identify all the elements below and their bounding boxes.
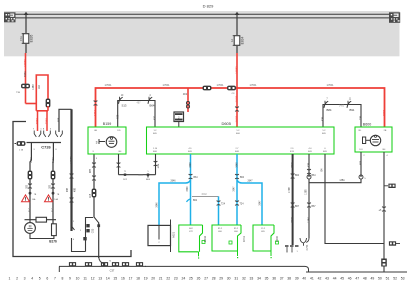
svg-text:1 HO1: 1 HO1 [105, 84, 113, 87]
svg-text:4GB: 4GB [117, 114, 119, 119]
connector T1B [21, 84, 30, 89]
svg-text:14B63: 14B63 [23, 59, 27, 67]
svg-text:4GB: 4GB [158, 163, 160, 168]
switch contact leg [72, 226, 75, 230]
module A601 [148, 225, 171, 245]
svg-text:B67: B67 [295, 206, 300, 208]
svg-text:B91: B91 [350, 108, 355, 112]
svg-text:4B8: 4B8 [361, 160, 363, 165]
switch S13 [118, 101, 155, 110]
connector left pigtail [17, 141, 26, 146]
svg-text:E02: E02 [189, 228, 193, 230]
svg-text:14A: 14A [32, 198, 36, 201]
splice box 88.5 [85, 262, 92, 266]
svg-text:0: 0 [324, 148, 326, 150]
svg-text:5: 5 [50, 129, 52, 131]
wire relay drop [187, 88, 189, 112]
svg-text:10: 10 [76, 277, 80, 281]
switch B64a [148, 97, 152, 104]
svg-text:15A: 15A [19, 36, 23, 41]
cyan branch right [237, 180, 262, 225]
svg-text:32: 32 [242, 277, 246, 281]
svg-text:39: 39 [295, 277, 299, 281]
svg-text:2647: 2647 [247, 181, 253, 183]
svg-text:4B1B: 4B1B [292, 217, 294, 223]
svg-text:K72: K72 [189, 231, 193, 233]
svg-text:13B5: 13B5 [306, 189, 308, 195]
svg-text:3647: 3647 [259, 200, 261, 206]
svg-text:4B1E: 4B1E [292, 162, 294, 168]
wire pin2.9 [292, 154, 294, 245]
wire fuse2 top [236, 15, 238, 35]
svg-text:e5: e5 [379, 210, 382, 212]
svg-text:C726: C726 [41, 145, 51, 150]
svg-text:37: 37 [280, 277, 284, 281]
wire lamp feed 2 [52, 143, 54, 225]
ECU B159 [88, 127, 126, 154]
svg-text:49D: 49D [155, 116, 157, 121]
svg-text:11: 11 [83, 277, 87, 281]
connector pair w3 [70, 173, 74, 176]
svg-text:52B: 52B [323, 116, 325, 121]
svg-text:E08: E08 [235, 151, 240, 153]
svg-text:R1.2: R1.2 [234, 228, 239, 230]
svg-text:7B: 7B [34, 194, 37, 196]
svg-text:4NB: 4NB [59, 117, 61, 122]
svg-text:14B63: 14B63 [235, 66, 239, 74]
svg-text:23: 23 [174, 277, 178, 281]
svg-text:2: 2 [158, 242, 160, 244]
svg-text:D032: D032 [203, 235, 207, 242]
svg-text:K2B: K2B [309, 162, 311, 167]
svg-text:36A8: 36A8 [201, 193, 207, 196]
svg-text:47: 47 [355, 277, 359, 281]
svg-text:B4: B4 [119, 151, 122, 153]
svg-text:38: 38 [287, 277, 291, 281]
svg-text:2: 2 [16, 277, 18, 281]
svg-text:DO: DO [359, 149, 363, 151]
cyan branch left [159, 180, 191, 225]
splice box 139.5 [136, 262, 143, 266]
svg-text:1B5: 1B5 [49, 184, 51, 189]
connector pair center [235, 106, 239, 109]
svg-text:B64: B64 [146, 179, 151, 181]
svg-text:14: 14 [106, 277, 110, 281]
svg-text:3646: 3646 [187, 186, 189, 192]
svg-text:E13: E13 [290, 151, 295, 153]
svg-text:1A: 1A [230, 39, 234, 42]
svg-text:49: 49 [371, 277, 375, 281]
svg-text:T1: T1 [124, 171, 127, 173]
svg-text:B64: B64 [193, 177, 198, 179]
svg-text:8: 8 [55, 149, 57, 151]
inline fuse bottom [381, 259, 387, 267]
switch B84 [323, 105, 361, 110]
svg-text:11: 11 [349, 99, 352, 101]
svg-text:4: 4 [386, 155, 388, 157]
svg-text:43: 43 [325, 277, 329, 281]
svg-text:B64: B64 [240, 177, 245, 179]
svg-text:E06: E06 [236, 133, 241, 135]
svg-text:53: 53 [401, 277, 405, 281]
wire fuse1 top [25, 15, 27, 33]
connector stub [384, 185, 388, 187]
connector on wire [382, 206, 386, 209]
svg-text:B64: B64 [311, 175, 316, 177]
svg-text:A021: A021 [171, 231, 175, 238]
wire top link [25, 219, 57, 221]
splice box 125.5 [122, 262, 129, 266]
svg-text:25: 25 [189, 277, 193, 281]
svg-text:48B: 48B [67, 187, 69, 192]
svg-text:C37: C37 [110, 269, 115, 273]
svg-text:S13: S13 [122, 104, 127, 108]
svg-text:22B: 22B [361, 115, 363, 120]
wire thick drop [70, 109, 72, 231]
wire red into C726 pair [47, 106, 49, 111]
wire lamp feed 1 [30, 143, 31, 220]
svg-text:E05: E05 [153, 133, 158, 135]
bus wire lower [14, 17, 390, 19]
svg-text:2.9: 2.9 [291, 148, 295, 150]
svg-text:1 1B: 1 1B [19, 150, 24, 152]
svg-text:B67: B67 [311, 206, 316, 208]
wire link 13B1 [309, 179, 360, 183]
svg-text:21: 21 [159, 277, 163, 281]
svg-text:13B4: 13B4 [309, 217, 311, 223]
svg-text:E09: E09 [323, 151, 328, 153]
svg-text:48B: 48B [75, 187, 77, 192]
wire red feed1 [25, 53, 27, 104]
component frame left [13, 122, 131, 257]
svg-text:17: 17 [129, 277, 133, 281]
svg-text:18: 18 [136, 277, 140, 281]
pump symbol in B600 [363, 137, 366, 144]
wire D605 pin1.10 [155, 154, 157, 175]
svg-text:RL: RL [359, 130, 363, 132]
svg-text:B64: B64 [295, 175, 300, 177]
splice bus [59, 265, 146, 267]
wire red drop center [236, 53, 238, 88]
svg-text:DD: DD [117, 130, 121, 132]
bus wire upper [14, 13, 390, 15]
svg-text:51: 51 [386, 277, 390, 281]
svg-text:13B1: 13B1 [339, 180, 345, 182]
svg-text:34: 34 [257, 277, 261, 281]
svg-text:36: 36 [272, 277, 276, 281]
wire washer cyan 1 [190, 154, 192, 225]
svg-text:K06: K06 [218, 231, 222, 233]
connector pair w2 [51, 171, 56, 180]
svg-text:1HO1: 1HO1 [235, 95, 239, 102]
svg-text:3: 3 [33, 149, 35, 151]
svg-text:3646: 3646 [156, 202, 158, 208]
svg-text:3647: 3647 [234, 186, 236, 192]
svg-text:3: 3 [96, 158, 98, 160]
svg-text:5.2: 5.2 [323, 130, 327, 132]
wire red feed bus [96, 88, 385, 127]
svg-text:19: 19 [144, 277, 148, 281]
svg-text:7: 7 [326, 99, 328, 101]
junction T1 [124, 174, 126, 176]
svg-text:40: 40 [302, 277, 306, 281]
svg-text:4.9: 4.9 [189, 148, 193, 150]
motor symbol in B159 [99, 141, 105, 143]
svg-text:3648: 3648 [190, 162, 192, 168]
wire to B600 RL [360, 109, 362, 127]
wire to D605 right [322, 109, 324, 127]
svg-text:1 HO1: 1 HO1 [327, 84, 335, 87]
svg-text:27: 27 [204, 277, 208, 281]
svg-text:B62: B62 [193, 200, 198, 202]
switch B91 [347, 101, 351, 108]
svg-text:1AFC2: 1AFC2 [70, 156, 73, 164]
connector pair w1 [28, 171, 33, 180]
svg-text:5: 5 [39, 277, 41, 281]
connector on bus 2 [227, 86, 236, 91]
svg-text:E09: E09 [188, 151, 193, 153]
sensor link wire [192, 195, 219, 197]
splice box 72.5 [69, 262, 76, 266]
wire relay leg [325, 154, 384, 244]
connector on B4 [117, 162, 121, 165]
svg-text:D 829: D 829 [203, 4, 214, 9]
svg-text:29: 29 [219, 277, 223, 281]
svg-text:B600: B600 [363, 123, 371, 127]
svg-text:44: 44 [333, 277, 337, 281]
power rail band [4, 11, 400, 56]
pump B600 [355, 127, 392, 152]
junction B64c [147, 174, 149, 176]
svg-text:T8B1: T8B1 [35, 117, 39, 124]
ruler scale [9, 277, 405, 281]
svg-text:2.7: 2.7 [236, 148, 240, 150]
motor M [25, 223, 36, 234]
svg-text:52: 52 [393, 277, 397, 281]
warning triangle 1 [29, 192, 32, 195]
svg-text:14DA: 14DA [93, 109, 97, 116]
splice box 115.5 [112, 262, 119, 266]
svg-text:26: 26 [197, 277, 201, 281]
svg-text:B159: B159 [103, 122, 111, 126]
fuse E834 [234, 36, 240, 46]
svg-text:4: 4 [31, 277, 33, 281]
switch on return [94, 217, 99, 223]
svg-text:E09: E09 [308, 151, 313, 153]
connector block right [389, 12, 400, 22]
connector C774 [300, 238, 307, 246]
wire to B159 DD [117, 109, 119, 127]
svg-text:D711: D711 [242, 235, 246, 242]
wire pin4.4 [308, 154, 310, 177]
svg-text:C774: C774 [306, 244, 309, 250]
svg-text:6: 6 [46, 277, 48, 281]
wire fuse1 bottom [25, 44, 27, 53]
junction arrow node [24, 12, 29, 15]
wire B600 B4 [383, 152, 385, 272]
svg-text:K05: K05 [261, 231, 265, 233]
svg-text:4: 4 [73, 239, 75, 241]
fuse E826 [23, 34, 29, 44]
svg-text:13: 13 [98, 277, 102, 281]
svg-text:50: 50 [378, 277, 382, 281]
resistor horizontal [36, 217, 47, 222]
svg-text:1.2: 1.2 [154, 130, 158, 132]
hook from return wire [99, 257, 104, 267]
svg-text:C1.2: C1.2 [261, 228, 266, 230]
svg-text:24: 24 [182, 277, 186, 281]
svg-text:1AFC: 1AFC [30, 157, 33, 163]
svg-text:4.4: 4.4 [309, 148, 313, 150]
svg-text:16: 16 [121, 277, 125, 281]
svg-text:0B: 0B [94, 130, 97, 132]
svg-text:2646: 2646 [170, 181, 176, 183]
svg-text:T24: T24 [221, 204, 226, 206]
svg-text:1 HO1: 1 HO1 [250, 84, 258, 87]
svg-text:3: 3 [96, 141, 98, 145]
svg-text:42: 42 [318, 277, 322, 281]
svg-text:T8B1: T8B1 [45, 117, 49, 124]
svg-text:10: 10 [121, 95, 124, 97]
svg-text:B84: B84 [327, 108, 332, 112]
nozzle D600 [253, 225, 274, 251]
svg-text:3: 3 [24, 277, 26, 281]
ground rail mid [145, 265, 305, 267]
wire red loop [26, 103, 37, 105]
wire B159 B4 down [118, 154, 120, 175]
svg-text:R1.2: R1.2 [218, 228, 223, 230]
svg-text:7: 7 [54, 277, 56, 281]
wire fuse2 bottom [236, 46, 238, 53]
svg-text:1: 1 [9, 277, 11, 281]
svg-text:2B: 2B [384, 130, 387, 132]
svg-text:E826: E826 [29, 34, 33, 42]
svg-text:1: 1 [296, 251, 298, 253]
connector block left [4, 12, 16, 22]
junction arrow node 2 [235, 12, 240, 15]
svg-text:33: 33 [250, 277, 254, 281]
wire to D605 [154, 109, 156, 127]
svg-text:22: 22 [166, 277, 170, 281]
svg-text:K06: K06 [234, 231, 238, 233]
wire B600 DO [360, 152, 362, 177]
svg-text:1AFC: 1AFC [52, 157, 55, 163]
svg-text:9: 9 [69, 277, 71, 281]
svg-text:7: 7 [33, 129, 35, 131]
svg-text:D000: D000 [275, 235, 279, 242]
svg-text:4B7: 4B7 [136, 103, 141, 105]
svg-text:46: 46 [348, 277, 352, 281]
svg-text:B4: B4 [322, 168, 324, 172]
svg-text:45: 45 [340, 277, 344, 281]
connector C726 row [27, 142, 62, 144]
svg-text:B176: B176 [49, 240, 57, 244]
svg-text:35: 35 [265, 277, 269, 281]
nozzle D711 [212, 225, 241, 251]
svg-text:T8B1: T8B1 [24, 70, 27, 76]
wire B159 return [93, 154, 95, 218]
svg-text:T1B: T1B [16, 92, 21, 94]
connector on red drop left [94, 100, 98, 103]
svg-text:31: 31 [234, 277, 238, 281]
svg-text:1K2: 1K2 [123, 179, 128, 181]
splice box 104.5 [101, 262, 108, 266]
svg-text:74: 74 [109, 261, 112, 263]
svg-text:M: M [29, 224, 32, 228]
svg-text:C3: C3 [232, 93, 236, 95]
svg-text:15: 15 [113, 277, 117, 281]
svg-text:1B5: 1B5 [26, 184, 28, 189]
warning triangle 2 [52, 192, 55, 195]
svg-text:1.10: 1.10 [153, 148, 158, 150]
connector on red branch [46, 99, 51, 108]
wire pin0 down to C774 [308, 183, 310, 238]
ignition box [174, 112, 184, 122]
svg-text:B4: B4 [383, 149, 386, 151]
junction box right [389, 241, 396, 245]
ground rail right [306, 271, 407, 273]
svg-text:5: 5 [147, 171, 149, 173]
svg-text:3648: 3648 [237, 162, 239, 168]
svg-text:3: 3 [92, 151, 94, 153]
wire washer cyan 3 [236, 154, 238, 225]
connector pair w3b [70, 197, 74, 200]
svg-text:5: 5 [364, 178, 366, 180]
nozzle D702 [179, 225, 203, 252]
wire washer cyan 2 [218, 196, 220, 225]
svg-text:992: 992 [39, 84, 41, 89]
svg-text:8: 8 [43, 129, 45, 131]
wire link row [119, 174, 156, 176]
svg-text:31C: 31C [53, 208, 55, 213]
wire bottom link [30, 233, 54, 238]
svg-text:E834: E834 [240, 36, 244, 44]
svg-text:E06: E06 [153, 151, 158, 153]
connector on return [92, 162, 96, 165]
svg-text:1 HO1: 1 HO1 [217, 84, 225, 87]
svg-text:1 HO1: 1 HO1 [163, 84, 171, 87]
svg-text:12: 12 [91, 277, 95, 281]
svg-text:28: 28 [212, 277, 216, 281]
svg-text:30: 30 [227, 277, 231, 281]
svg-text:1HO1: 1HO1 [235, 115, 239, 122]
svg-text:T24: T24 [240, 204, 245, 206]
svg-text:4: 4 [149, 95, 151, 97]
ECU D605 [147, 127, 335, 154]
connector pair on return [92, 189, 97, 198]
resistor vertical B176 [52, 224, 57, 236]
svg-text:2: 2 [363, 155, 365, 157]
junction stub [147, 175, 149, 178]
svg-text:C03: C03 [92, 228, 95, 233]
svg-text:31C: 31C [30, 208, 32, 213]
terminal row right of D600 [285, 245, 299, 247]
svg-text:B64: B64 [150, 104, 155, 108]
svg-text:1BB5: 1BB5 [382, 109, 386, 116]
wire black n-shape [59, 109, 72, 132]
connector C03 [86, 218, 94, 252]
svg-text:41: 41 [310, 277, 314, 281]
connector circles [186, 101, 189, 104]
svg-text:LT4B: LT4B [289, 187, 291, 193]
svg-text:1: 1 [73, 221, 75, 223]
svg-text:E05: E05 [322, 133, 327, 135]
svg-text:5.2: 5.2 [237, 130, 241, 132]
svg-text:8: 8 [61, 277, 63, 281]
svg-text:7B: 7B [57, 194, 60, 196]
svg-text:20: 20 [151, 277, 155, 281]
svg-text:1: 1 [80, 230, 82, 232]
